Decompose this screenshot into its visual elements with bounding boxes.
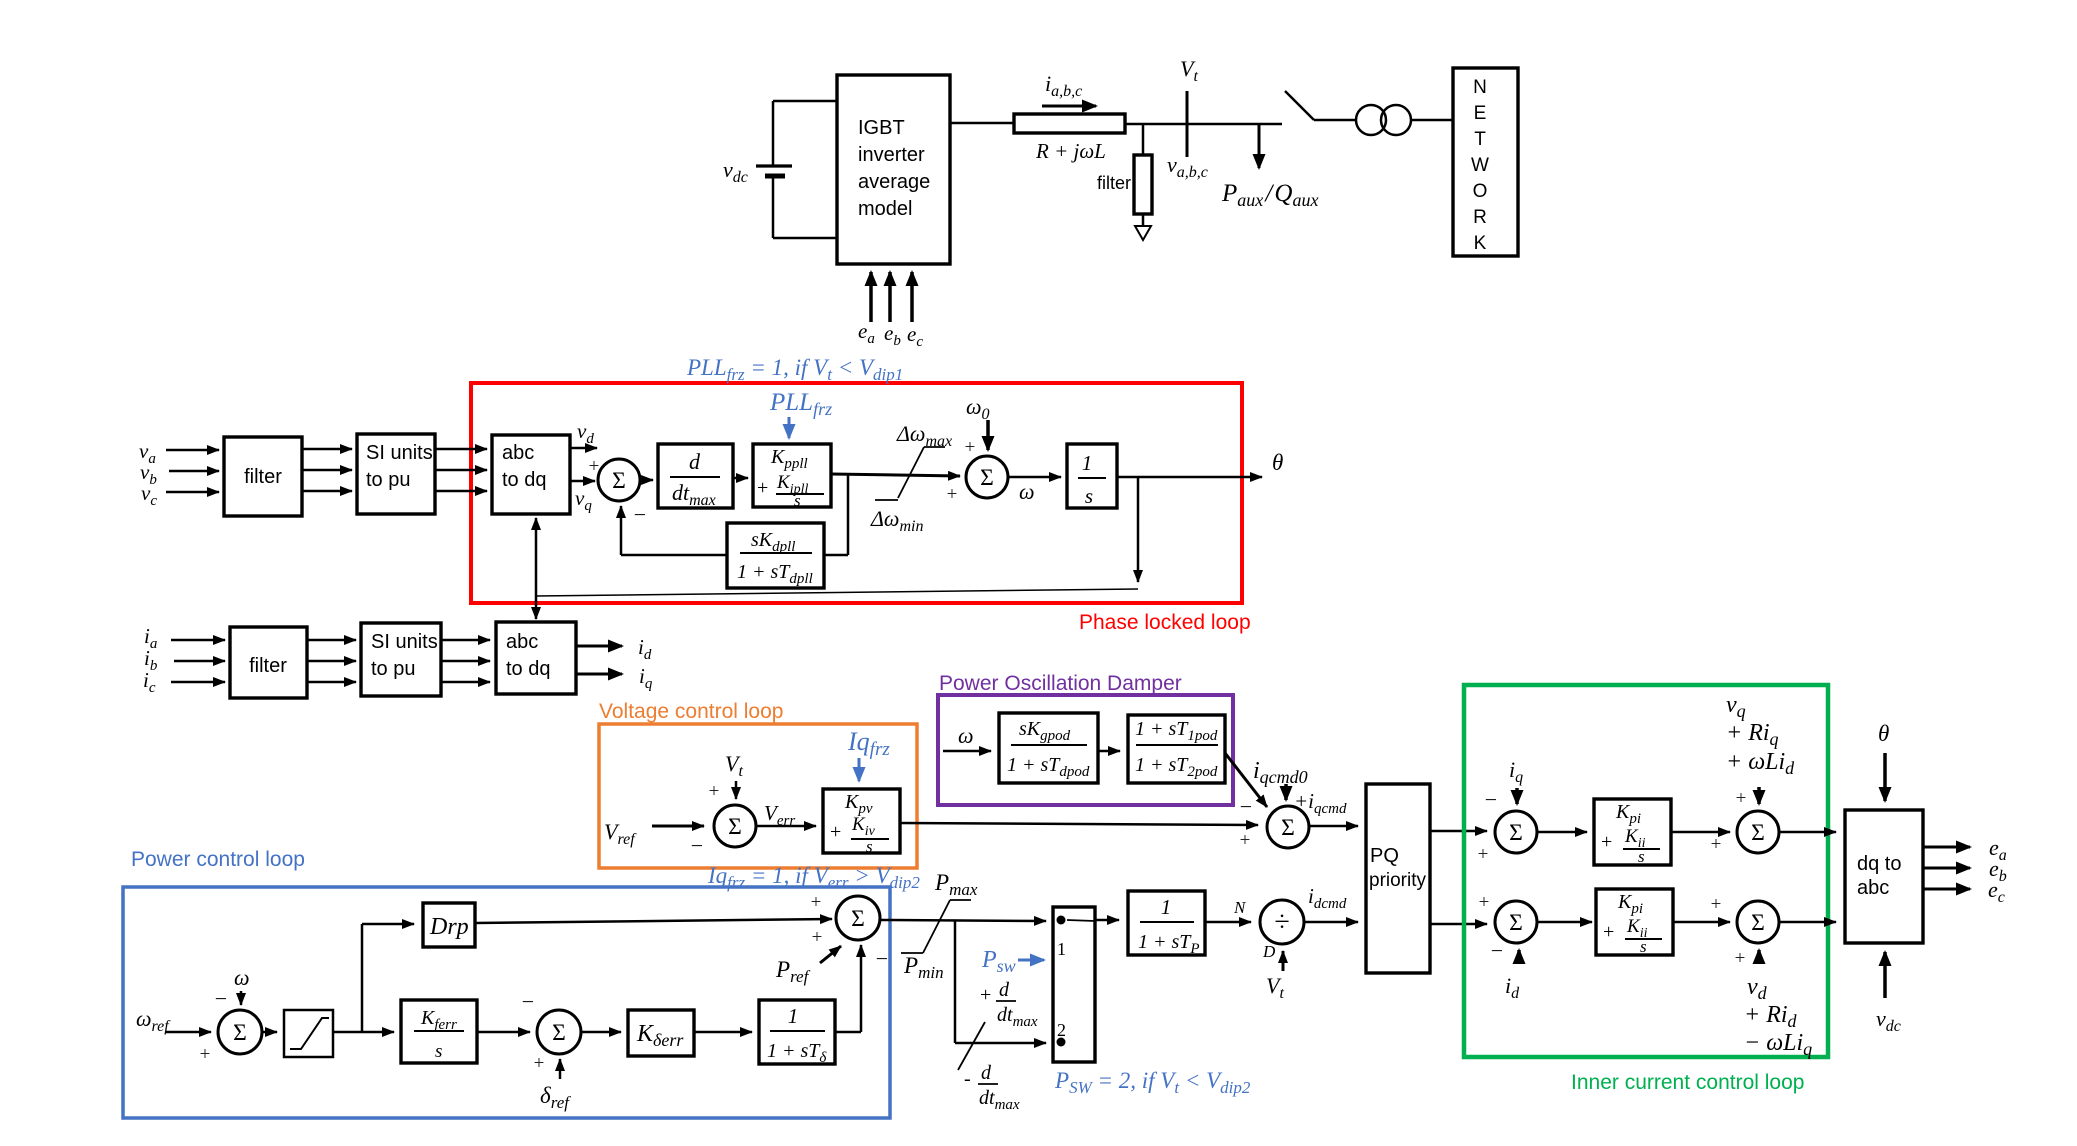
svg-text:Σ: Σ: [728, 814, 742, 840]
svg-text:d: d: [689, 449, 701, 474]
svg-text:+: +: [811, 892, 822, 913]
svg-text:filter: filter: [1097, 173, 1131, 193]
svg-text:Σ: Σ: [1509, 910, 1523, 936]
svg-text:+: +: [1240, 830, 1251, 851]
svg-text:filter: filter: [244, 466, 282, 488]
svg-text:+: +: [1603, 921, 1614, 943]
svg-text:inverter: inverter: [858, 144, 925, 166]
svg-text:model: model: [858, 198, 912, 220]
svg-text:K: K: [1474, 233, 1487, 254]
svg-text:R + jωL: R + jωL: [1035, 139, 1106, 163]
svg-text:− ωLiq: − ωLiq: [1744, 1030, 1812, 1059]
svg-text:1: 1: [788, 1004, 799, 1028]
svg-text:θ: θ: [1878, 721, 1889, 746]
svg-text:θ: θ: [1272, 450, 1283, 475]
svg-text:Drp: Drp: [429, 914, 469, 940]
svg-text:SI units: SI units: [371, 631, 438, 653]
svg-text:Σ: Σ: [1509, 820, 1523, 846]
svg-text:D: D: [1262, 942, 1276, 961]
svg-text:Inner current control loop: Inner current control loop: [1571, 1071, 1804, 1094]
svg-text:O: O: [1473, 181, 1488, 202]
svg-text:−: −: [522, 989, 534, 1014]
svg-text:E: E: [1474, 103, 1487, 124]
svg-text:PLLfrz = 1, if Vt < Vdip1: PLLfrz = 1, if Vt < Vdip1: [686, 355, 903, 384]
svg-text:SI units: SI units: [366, 442, 433, 464]
svg-text:−: −: [876, 946, 888, 971]
svg-text:+: +: [709, 781, 720, 802]
svg-text:Voltage control loop: Voltage control loop: [599, 700, 783, 723]
svg-text:abc: abc: [506, 631, 538, 653]
svg-text:−: −: [1491, 938, 1503, 963]
svg-text:filter: filter: [249, 655, 287, 677]
svg-text:Σ: Σ: [233, 1020, 247, 1046]
svg-text:s: s: [435, 1041, 442, 1062]
svg-text:s: s: [1638, 847, 1645, 866]
svg-text:−: −: [215, 986, 227, 1011]
svg-text:Power Oscillation Damper: Power Oscillation Damper: [939, 672, 1182, 695]
svg-text:to pu: to pu: [366, 469, 410, 491]
svg-text:+: +: [830, 821, 841, 843]
svg-text:2: 2: [1057, 1020, 1066, 1040]
svg-text:s: s: [794, 491, 801, 510]
svg-text:to dq: to dq: [506, 658, 550, 680]
svg-text:ω: ω: [958, 723, 974, 748]
svg-text:Σ: Σ: [851, 906, 865, 932]
svg-text:Σ: Σ: [552, 1020, 566, 1046]
svg-text:-: -: [964, 1068, 971, 1090]
svg-text:to pu: to pu: [371, 658, 415, 680]
svg-text:−: −: [691, 833, 703, 858]
svg-text:Σ: Σ: [980, 465, 994, 491]
svg-text:to dq: to dq: [502, 469, 546, 491]
svg-text:1: 1: [1082, 451, 1093, 475]
svg-text:Phase locked loop: Phase locked loop: [1079, 611, 1251, 634]
svg-text:+: +: [1601, 831, 1612, 853]
svg-text:−: −: [1240, 794, 1252, 819]
svg-text:T: T: [1474, 129, 1486, 150]
svg-text:Σ: Σ: [1281, 815, 1295, 841]
svg-text:+: +: [947, 484, 958, 505]
svg-text:1: 1: [1057, 939, 1066, 959]
svg-text:N: N: [1473, 77, 1487, 98]
svg-text:+: +: [1711, 834, 1722, 855]
svg-text:+: +: [200, 1044, 211, 1065]
svg-text:Σ: Σ: [1751, 910, 1765, 936]
svg-text:1: 1: [1161, 895, 1172, 919]
svg-text:+: +: [1478, 844, 1489, 865]
svg-text:+: +: [965, 437, 976, 458]
svg-text:R: R: [1473, 207, 1487, 228]
svg-text:+: +: [812, 927, 823, 948]
svg-text:s: s: [866, 837, 873, 856]
svg-text:ω: ω: [234, 965, 250, 990]
svg-text:abc: abc: [1857, 877, 1889, 899]
svg-text:Σ: Σ: [612, 468, 626, 494]
svg-text:ω: ω: [1019, 479, 1035, 504]
svg-text:+: +: [534, 1053, 545, 1074]
svg-text:IGBT: IGBT: [858, 117, 905, 139]
svg-text:average: average: [858, 171, 930, 193]
svg-text:s: s: [1085, 484, 1093, 508]
svg-text:+: +: [1735, 948, 1746, 969]
svg-text:priority: priority: [1369, 870, 1427, 891]
svg-text:÷: ÷: [1274, 907, 1289, 938]
svg-text:W: W: [1471, 155, 1489, 176]
svg-text:Power control loop: Power control loop: [131, 848, 305, 871]
svg-text:+: +: [757, 477, 768, 499]
svg-text:−: −: [634, 502, 646, 527]
svg-text:+ ωLid: + ωLid: [1726, 749, 1795, 778]
svg-text:s: s: [1640, 937, 1647, 956]
svg-text:PQ: PQ: [1370, 845, 1399, 867]
svg-text:+: +: [1711, 894, 1722, 915]
svg-text:N: N: [1233, 898, 1247, 917]
svg-text:d: d: [981, 1062, 992, 1084]
svg-text:+: +: [980, 984, 991, 1006]
svg-text:+: +: [1736, 788, 1747, 809]
svg-text:−: −: [1485, 787, 1497, 812]
svg-text:Σ: Σ: [1751, 820, 1765, 846]
svg-text:d: d: [999, 979, 1010, 1001]
svg-text:abc: abc: [502, 442, 534, 464]
svg-text:+: +: [1479, 892, 1490, 913]
svg-text:dq to: dq to: [1857, 853, 1901, 875]
